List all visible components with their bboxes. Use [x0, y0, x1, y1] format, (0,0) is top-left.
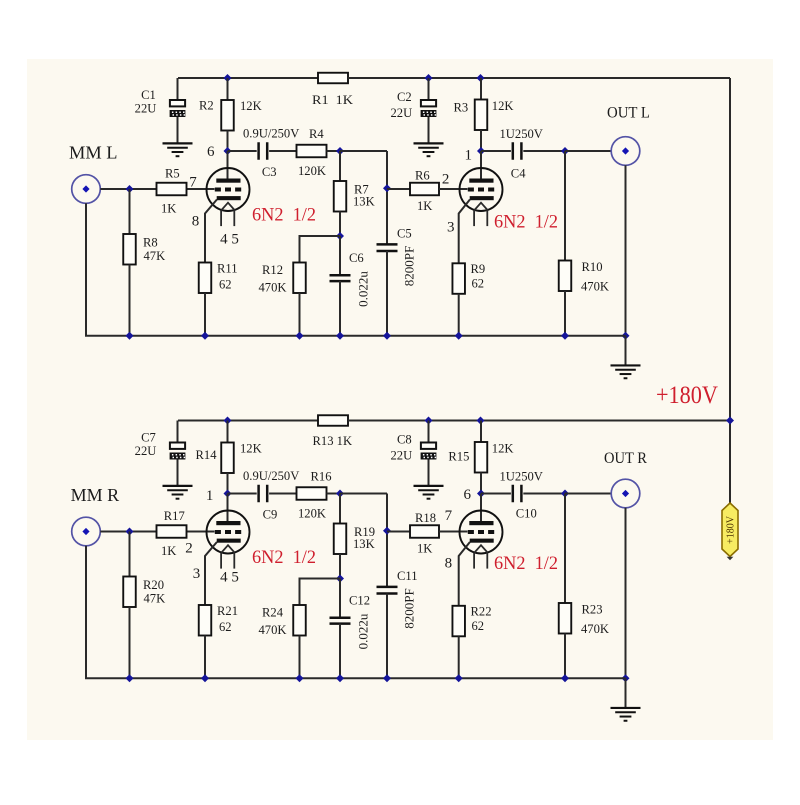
svg-text:6N2 1/2: 6N2 1/2: [252, 205, 316, 225]
junction node plate1 L: [224, 147, 232, 155]
svg-text:C9: C9: [263, 508, 278, 522]
resistor R3: [475, 78, 488, 151]
svg-text:0.022u: 0.022u: [355, 271, 370, 307]
svg-text:1U250V: 1U250V: [500, 470, 543, 484]
svg-text:470K: 470K: [581, 622, 609, 636]
junction C10/R23: [561, 490, 569, 498]
svg-text:47K: 47K: [144, 592, 166, 606]
junction R19/C12: [336, 575, 344, 583]
svg-text:7: 7: [445, 508, 453, 524]
svg-text:R1 1K: R1 1K: [312, 93, 353, 107]
svg-text:C8: C8: [397, 433, 412, 447]
svg-text:1K: 1K: [417, 199, 432, 213]
connector MM L input: [72, 175, 101, 204]
svg-text:1: 1: [464, 148, 472, 164]
resistor R24: [293, 605, 306, 678]
svg-text:0.022u: 0.022u: [355, 613, 370, 649]
wire plate lead tube1 L: [227, 151, 229, 181]
capacitor C4: [513, 142, 522, 160]
wire B+ bus left R: [178, 420, 318, 422]
junction bus/R14: [224, 417, 232, 425]
junction R18 tap: [383, 527, 391, 535]
resistor R9: [452, 263, 465, 335]
resistor R12: [293, 263, 306, 336]
wire cathode lead tube1 L: [205, 200, 217, 263]
resistor R16: [297, 487, 341, 500]
svg-text:C11: C11: [397, 569, 418, 583]
svg-text:0.9U/250V: 0.9U/250V: [243, 127, 299, 141]
wire C12 top stem: [339, 579, 341, 618]
capacitor C6: [330, 275, 351, 281]
wire gnd bus to ground L: [625, 336, 627, 366]
junction gnd bus/C5: [383, 332, 391, 340]
wire plate lead tube2 L: [480, 151, 482, 181]
power flag +180V: [722, 503, 738, 560]
capacitor C1 electrolytic: [170, 78, 186, 143]
junction gnd bus/R11: [201, 332, 209, 340]
wire cathode lead tube1 R: [205, 542, 217, 605]
svg-text:12K: 12K: [492, 99, 514, 113]
wire plate lead tube1 R: [227, 494, 229, 524]
junction gnd bus/R10: [561, 332, 569, 340]
ground C1 gnd: [163, 143, 193, 156]
junction R4/R7: [336, 147, 344, 155]
svg-text:8200PF: 8200PF: [402, 246, 417, 286]
wire C5 to gnd bus: [386, 251, 388, 336]
svg-text:1K: 1K: [417, 542, 432, 556]
wire C6 bottom stem: [339, 281, 341, 336]
junction bus/C2: [425, 74, 433, 82]
svg-text:C3: C3: [262, 165, 277, 179]
wire jack OUT L to gnd bus: [625, 165, 627, 335]
junction gnd bus/R21: [201, 674, 209, 682]
wire C11 to gnd bus: [386, 594, 388, 679]
svg-text:62: 62: [219, 277, 232, 291]
resistor R21: [199, 605, 212, 678]
wire plate2 node to C4: [481, 150, 511, 152]
svg-text:22U: 22U: [391, 106, 413, 120]
svg-text:C5: C5: [397, 226, 412, 240]
resistor R14: [221, 421, 234, 494]
svg-text:R21: R21: [217, 604, 238, 618]
resistor R19: [334, 494, 347, 579]
svg-text:3: 3: [447, 220, 455, 236]
resistor R7: [334, 151, 347, 236]
svg-text:R11: R11: [217, 262, 238, 276]
svg-text:12K: 12K: [492, 442, 514, 456]
junction input/R20: [126, 528, 134, 536]
wire R4 node to feedback: [340, 150, 387, 152]
svg-text:12K: 12K: [240, 442, 262, 456]
wire feedback vertical R upper: [386, 494, 388, 587]
svg-text:62: 62: [472, 276, 485, 290]
connector MM R input: [72, 517, 101, 546]
resistor R1: [318, 73, 730, 84]
svg-text:R18: R18: [415, 511, 436, 525]
junction gnd bus/R24: [296, 674, 304, 682]
wire C10 to out node: [523, 493, 565, 495]
resistor R13: [318, 415, 730, 426]
wire grid lead tube1 R: [187, 531, 215, 533]
svg-text:8: 8: [445, 555, 453, 571]
resistor R11: [199, 263, 212, 336]
tube V1R 6N2 triode: [207, 511, 250, 569]
wire ground bus L: [86, 203, 626, 335]
junction node plate1 R: [224, 490, 232, 498]
ground C7 gnd: [163, 486, 193, 499]
wire plate2 node to C10: [481, 493, 511, 495]
junction R6 tap: [383, 184, 391, 192]
resistor R23: [559, 494, 572, 679]
svg-text:R17: R17: [164, 509, 185, 523]
svg-text:R2: R2: [199, 99, 214, 113]
wire input to R17: [100, 531, 156, 533]
svg-text:C12: C12: [349, 594, 370, 608]
tube V2L 6N2 triode: [460, 168, 503, 226]
svg-text:R13 1K: R13 1K: [313, 434, 353, 448]
svg-text:C6: C6: [349, 251, 364, 265]
wire out node to jack R: [565, 493, 611, 495]
junction gnd bus/C11: [383, 674, 391, 682]
svg-text:4 5: 4 5: [220, 570, 239, 586]
junction R7/C6: [336, 232, 344, 240]
wire gnd bus to ground R: [625, 678, 627, 708]
wire plate lead tube2 R: [480, 494, 482, 524]
resistor R10: [559, 151, 572, 336]
wire plate1 node to C9: [228, 493, 257, 495]
junction gnd bus/R8: [126, 332, 134, 340]
svg-text:C2: C2: [397, 90, 412, 104]
svg-text:8: 8: [192, 214, 200, 230]
svg-text:OUT L: OUT L: [607, 105, 650, 122]
svg-text:C10: C10: [516, 507, 537, 521]
svg-text:R15: R15: [448, 449, 469, 463]
capacitor C2 electrolytic: [421, 78, 437, 143]
svg-text:13K: 13K: [353, 537, 375, 551]
svg-text:1U250V: 1U250V: [500, 127, 543, 141]
svg-text:R16: R16: [311, 470, 332, 484]
svg-text:0.9U/250V: 0.9U/250V: [243, 469, 299, 483]
ground OUT L gnd: [611, 365, 641, 378]
capacitor C10: [513, 485, 522, 503]
svg-text:3: 3: [193, 566, 201, 582]
svg-text:13K: 13K: [353, 195, 375, 209]
junction gnd bus/R20: [126, 674, 134, 682]
svg-text:6N2 1/2: 6N2 1/2: [252, 548, 316, 568]
resistor R8: [123, 189, 136, 336]
wire R16 node to feedback: [340, 493, 387, 495]
junction node plate2 L: [477, 147, 485, 155]
svg-text:R4: R4: [309, 127, 324, 141]
tube V2R 6N2 triode: [460, 511, 503, 569]
junction input/R8: [126, 185, 134, 193]
resistor R6: [387, 183, 468, 196]
wire C4 to out node: [523, 150, 565, 152]
svg-text:120K: 120K: [298, 164, 326, 178]
svg-text:+180V: +180V: [656, 382, 718, 409]
svg-text:R3: R3: [454, 101, 469, 115]
resistor R22: [452, 606, 465, 678]
wire out node to jack L: [565, 150, 611, 152]
capacitor C5: [377, 244, 398, 251]
connector OUT L: [611, 137, 640, 166]
svg-text:R24: R24: [262, 606, 284, 620]
capacitor C7 electrolytic: [170, 421, 186, 486]
svg-text:1K: 1K: [161, 544, 176, 558]
svg-text:12K: 12K: [240, 99, 262, 113]
svg-text:8200PF: 8200PF: [402, 588, 417, 628]
schematic paper background: [27, 59, 773, 740]
svg-text:R22: R22: [471, 605, 492, 619]
wire plate1 node to C3: [228, 150, 257, 152]
junction gnd bus/R23: [561, 674, 569, 682]
junction R16/R19: [336, 490, 344, 498]
junction out gnd R: [622, 674, 630, 682]
tube V1L 6N2 triode: [207, 168, 250, 226]
svg-text:R14: R14: [196, 448, 218, 462]
wire C6 top stem: [339, 236, 341, 275]
svg-text:62: 62: [219, 620, 232, 634]
svg-text:OUT R: OUT R: [604, 450, 647, 467]
svg-text:2: 2: [442, 172, 450, 188]
resistor R18: [387, 525, 468, 538]
wire grid lead tube1 L: [187, 188, 215, 190]
wire feedback vertical L upper: [386, 151, 388, 244]
svg-text:47K: 47K: [144, 249, 166, 263]
resistor R20: [123, 532, 136, 679]
svg-text:R12: R12: [262, 263, 283, 277]
capacitor C9: [259, 485, 268, 503]
svg-text:6: 6: [207, 144, 215, 160]
junction gnd bus/R9: [455, 332, 463, 340]
wire cathode lead tube2 L: [459, 200, 470, 264]
junction gnd bus/C12: [336, 674, 344, 682]
capacitor C3: [259, 142, 268, 160]
svg-text:470K: 470K: [581, 279, 609, 293]
resistor R5: [157, 183, 187, 196]
junction C4/R10: [561, 147, 569, 155]
svg-text:+180V: +180V: [726, 515, 737, 544]
svg-text:470K: 470K: [259, 623, 287, 637]
junction B+ rail / +180V bus: [726, 417, 734, 425]
wire ground bus R: [86, 546, 626, 678]
ground C8 gnd: [414, 486, 444, 499]
resistor R4: [297, 145, 341, 158]
wire input to R5: [100, 188, 156, 190]
svg-text:C4: C4: [511, 167, 526, 181]
svg-text:22U: 22U: [391, 449, 413, 463]
connector OUT R: [611, 479, 640, 508]
resistor R17: [157, 525, 187, 538]
junction out gnd L: [622, 332, 630, 340]
svg-text:470K: 470K: [259, 281, 287, 295]
svg-text:1K: 1K: [161, 202, 176, 216]
svg-text:6N2 1/2: 6N2 1/2: [494, 213, 558, 233]
junction gnd bus/R12: [296, 332, 304, 340]
resistor R15: [475, 421, 488, 494]
ground OUT R gnd: [611, 708, 641, 721]
svg-text:22U: 22U: [135, 444, 157, 458]
svg-text:R5: R5: [165, 167, 180, 181]
wire B+ bus left L: [178, 77, 318, 79]
junction gnd bus/R22: [455, 674, 463, 682]
svg-text:120K: 120K: [298, 507, 326, 521]
resistor R2: [221, 78, 234, 151]
wire C12 bottom stem: [339, 624, 341, 679]
wire jack OUT R to gnd bus: [625, 508, 627, 678]
svg-text:22U: 22U: [135, 102, 157, 116]
svg-text:R10: R10: [582, 260, 603, 274]
junction bus/R2: [224, 74, 232, 82]
svg-text:7: 7: [189, 175, 197, 191]
wire R7 node to R12: [300, 236, 341, 263]
svg-text:C1: C1: [141, 88, 156, 102]
ground C2 gnd: [414, 143, 444, 156]
wire C9 to R16: [269, 493, 296, 495]
capacitor C8 electrolytic: [421, 421, 437, 486]
junction bus/C8: [425, 417, 433, 425]
wire R19 node to R24: [300, 579, 341, 606]
svg-text:R6: R6: [415, 169, 430, 183]
capacitor C12: [330, 618, 351, 624]
svg-text:R23: R23: [582, 603, 603, 617]
svg-text:6: 6: [464, 487, 472, 503]
junction node plate2 R: [477, 490, 485, 498]
svg-text:R9: R9: [471, 262, 486, 276]
capacitor C11: [377, 587, 398, 594]
svg-text:62: 62: [472, 619, 485, 633]
svg-text:2: 2: [185, 541, 193, 557]
junction bus/R3: [477, 74, 485, 82]
wire cathode lead tube2 R: [459, 542, 470, 606]
svg-text:MM L: MM L: [69, 143, 118, 163]
wire C3 to R4: [269, 150, 296, 152]
svg-text:C7: C7: [141, 431, 156, 445]
junction bus/R15: [477, 417, 485, 425]
svg-text:R8: R8: [143, 236, 158, 250]
wire B+ rail right: [729, 78, 731, 503]
svg-text:R20: R20: [143, 578, 164, 592]
svg-text:MM R: MM R: [71, 485, 120, 505]
junction gnd bus/C6: [336, 332, 344, 340]
svg-text:6N2 1/2: 6N2 1/2: [494, 554, 558, 574]
svg-text:1: 1: [206, 488, 214, 504]
svg-text:4 5: 4 5: [220, 231, 239, 247]
